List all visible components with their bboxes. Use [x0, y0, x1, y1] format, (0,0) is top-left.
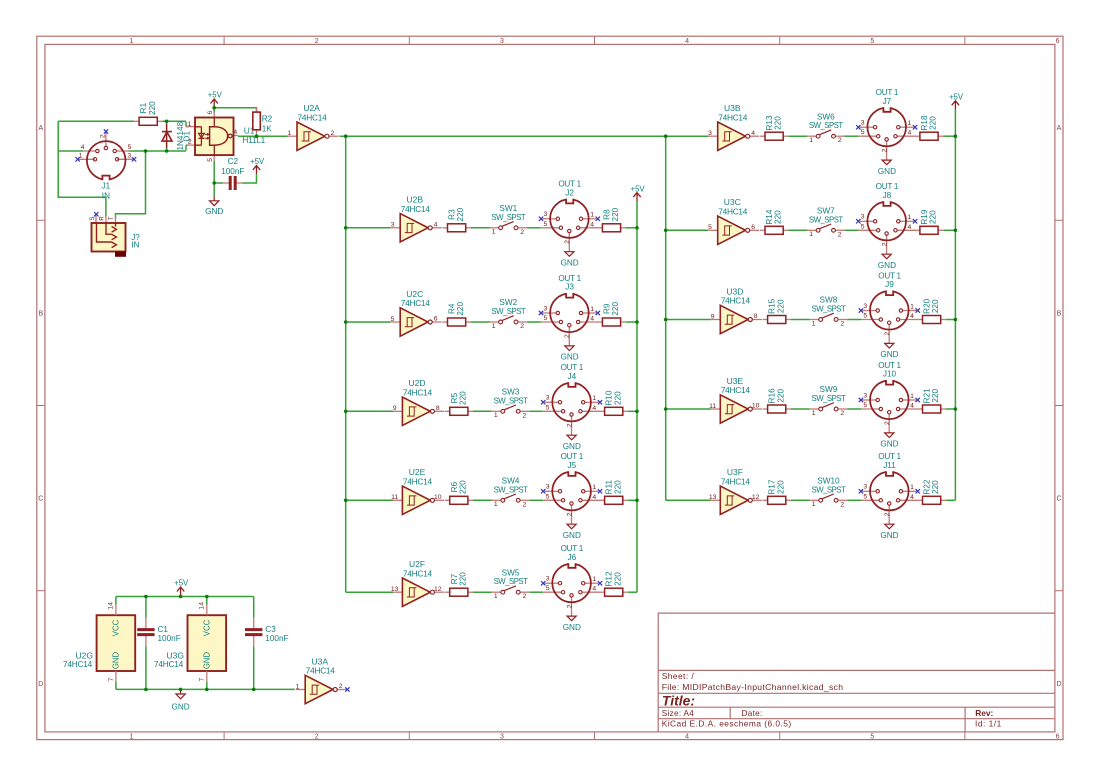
svg-text:74HC14: 74HC14 [154, 659, 184, 669]
svg-text:IN: IN [131, 241, 139, 250]
svg-text:GND: GND [202, 651, 211, 669]
svg-text:+5V: +5V [174, 579, 189, 588]
svg-text:4: 4 [592, 405, 596, 412]
svg-text:OUT 1: OUT 1 [561, 544, 584, 553]
svg-text:1: 1 [79, 153, 83, 160]
svg-text:11: 11 [709, 403, 716, 410]
svg-text:J9: J9 [885, 280, 894, 289]
svg-text:SW3: SW3 [502, 387, 520, 396]
svg-text:+5V: +5V [250, 157, 265, 166]
svg-text:12: 12 [752, 494, 760, 501]
svg-text:2: 2 [884, 512, 891, 516]
svg-text:4: 4 [590, 315, 594, 322]
svg-text:220: 220 [148, 101, 157, 115]
svg-text:4: 4 [81, 144, 85, 151]
svg-text:2: 2 [881, 242, 888, 246]
svg-text:J8: J8 [883, 191, 892, 200]
svg-text:2: 2 [881, 148, 888, 152]
svg-text:4: 4 [590, 221, 594, 228]
svg-text:5: 5 [863, 493, 867, 500]
svg-text:3: 3 [861, 120, 865, 127]
svg-text:5: 5 [708, 224, 712, 231]
svg-text:1: 1 [492, 229, 496, 236]
svg-text:2: 2 [840, 501, 844, 508]
svg-text:SW_SPST: SW_SPST [812, 394, 846, 403]
svg-text:1: 1 [130, 38, 134, 45]
svg-text:2: 2 [564, 240, 571, 244]
svg-text:220: 220 [776, 389, 785, 403]
svg-text:4: 4 [910, 313, 914, 320]
svg-text:GND: GND [560, 258, 578, 267]
svg-text:SW_SPST: SW_SPST [491, 213, 525, 222]
svg-text:6: 6 [751, 224, 755, 231]
svg-text:GND: GND [563, 623, 581, 632]
svg-text:2: 2 [564, 334, 571, 338]
svg-text:5: 5 [546, 585, 550, 592]
svg-text:2: 2 [520, 323, 524, 330]
svg-text:3: 3 [863, 484, 867, 491]
svg-text:SW10: SW10 [817, 476, 840, 485]
svg-text:6: 6 [1056, 733, 1060, 740]
svg-text:74HC14: 74HC14 [721, 296, 751, 306]
svg-text:OUT 1: OUT 1 [878, 361, 901, 370]
svg-text:2: 2 [566, 423, 573, 427]
svg-text:5: 5 [861, 223, 865, 230]
svg-text:B: B [38, 310, 43, 317]
svg-text:5: 5 [544, 315, 548, 322]
svg-text:4: 4 [751, 130, 755, 137]
svg-text:SW_SPST: SW_SPST [491, 307, 525, 316]
svg-text:1: 1 [812, 501, 816, 508]
svg-text:5: 5 [870, 38, 874, 45]
svg-text:GND: GND [880, 440, 898, 449]
svg-text:5: 5 [546, 493, 550, 500]
svg-text:10: 10 [434, 494, 442, 501]
svg-text:4: 4 [233, 129, 237, 136]
svg-text:File: MIDIPatchBay-InputChanne: File: MIDIPatchBay-InputChannel.kicad_sc… [662, 682, 844, 692]
svg-text:C1: C1 [158, 625, 169, 634]
svg-text:+5V: +5V [208, 91, 223, 100]
svg-text:220: 220 [776, 480, 785, 494]
svg-text:Rev:: Rev: [975, 708, 993, 718]
svg-text:2: 2 [99, 134, 106, 138]
svg-text:OUT 1: OUT 1 [876, 88, 899, 97]
svg-text:8: 8 [436, 405, 440, 412]
svg-text:3: 3 [500, 733, 504, 740]
svg-text:GND: GND [205, 207, 223, 216]
svg-text:J11: J11 [883, 461, 896, 470]
svg-text:OUT 1: OUT 1 [876, 182, 899, 191]
svg-text:D: D [38, 681, 43, 688]
svg-text:74HC14: 74HC14 [306, 666, 336, 676]
svg-text:B: B [1057, 310, 1062, 317]
svg-text:SW7: SW7 [817, 206, 835, 215]
svg-text:2: 2 [520, 229, 524, 236]
svg-text:C: C [1056, 496, 1061, 503]
svg-text:1: 1 [592, 395, 596, 402]
svg-text:4: 4 [592, 494, 596, 501]
svg-text:1: 1 [130, 733, 134, 740]
svg-text:1: 1 [809, 137, 813, 144]
svg-text:SW8: SW8 [820, 296, 838, 305]
svg-text:2: 2 [840, 320, 844, 327]
svg-text:D: D [1056, 681, 1061, 688]
svg-text:220: 220 [611, 207, 620, 221]
svg-text:J3: J3 [565, 283, 574, 292]
svg-text:9: 9 [393, 405, 397, 412]
svg-text:4: 4 [685, 733, 689, 740]
svg-text:100nF: 100nF [265, 634, 288, 643]
svg-text:5: 5 [863, 402, 867, 409]
svg-text:13: 13 [709, 494, 717, 501]
svg-text:1: 1 [492, 323, 496, 330]
svg-text:220: 220 [931, 389, 940, 403]
svg-text:74HC14: 74HC14 [401, 204, 431, 214]
svg-text:3: 3 [500, 38, 504, 45]
svg-text:14: 14 [198, 602, 205, 610]
svg-text:SW_SPST: SW_SPST [494, 396, 528, 405]
svg-text:220: 220 [458, 480, 467, 494]
svg-text:J1: J1 [102, 181, 111, 190]
svg-text:J7: J7 [883, 97, 892, 106]
svg-text:SW_SPST: SW_SPST [812, 305, 846, 314]
svg-text:5: 5 [861, 129, 865, 136]
svg-text:2: 2 [523, 501, 527, 508]
svg-text:3: 3 [708, 130, 712, 137]
svg-text:J10: J10 [883, 370, 897, 379]
svg-text:OUT 1: OUT 1 [878, 271, 901, 280]
svg-text:220: 220 [458, 391, 467, 405]
svg-text:GND: GND [111, 651, 120, 669]
svg-text:1: 1 [908, 214, 912, 221]
svg-text:3: 3 [546, 395, 550, 402]
svg-text:Id: 1/1: Id: 1/1 [975, 718, 1002, 728]
svg-text:J6: J6 [567, 553, 576, 562]
svg-text:6: 6 [434, 316, 438, 323]
svg-text:14: 14 [108, 602, 115, 610]
svg-text:2: 2 [523, 593, 527, 600]
svg-text:2: 2 [840, 410, 844, 417]
svg-text:10: 10 [752, 403, 760, 410]
svg-text:4: 4 [434, 221, 438, 228]
svg-text:1: 1 [910, 393, 914, 400]
svg-text:220: 220 [774, 210, 783, 224]
svg-text:Date:: Date: [742, 709, 763, 718]
svg-text:2: 2 [884, 421, 891, 425]
svg-text:74HC14: 74HC14 [298, 112, 328, 122]
svg-text:1: 1 [812, 320, 816, 327]
svg-text:GND: GND [563, 442, 581, 451]
svg-text:3: 3 [546, 576, 550, 583]
svg-text:SW5: SW5 [502, 568, 520, 577]
svg-text:5: 5 [870, 733, 874, 740]
svg-text:3: 3 [546, 484, 550, 491]
svg-text:74HC14: 74HC14 [403, 568, 433, 578]
svg-text:74HC14: 74HC14 [63, 659, 93, 669]
svg-text:220: 220 [611, 302, 620, 316]
svg-text:220: 220 [458, 572, 467, 586]
svg-text:5: 5 [128, 144, 132, 151]
svg-text:1: 1 [494, 501, 498, 508]
svg-text:2: 2 [566, 604, 573, 608]
svg-text:2: 2 [315, 38, 319, 45]
svg-text:GND: GND [878, 167, 896, 176]
svg-text:2: 2 [188, 139, 192, 146]
svg-text:1: 1 [296, 683, 300, 690]
svg-text:5: 5 [863, 312, 867, 319]
svg-text:C: C [38, 496, 43, 503]
svg-text:12: 12 [434, 586, 442, 593]
svg-text:220: 220 [613, 480, 622, 494]
svg-text:220: 220 [776, 299, 785, 313]
svg-text:74HC14: 74HC14 [718, 207, 748, 217]
svg-text:J5: J5 [567, 461, 576, 470]
svg-text:3: 3 [544, 305, 548, 312]
svg-text:OUT 1: OUT 1 [558, 180, 581, 189]
svg-text:3: 3 [544, 211, 548, 218]
svg-text:C3: C3 [265, 625, 276, 634]
svg-text:1: 1 [592, 576, 596, 583]
svg-text:11: 11 [391, 494, 398, 501]
svg-text:SW6: SW6 [817, 112, 835, 121]
svg-text:KiCad E.D.A. eeschema (6.0.5): KiCad E.D.A. eeschema (6.0.5) [662, 718, 792, 728]
svg-text:2: 2 [566, 512, 573, 516]
svg-text:2: 2 [838, 231, 842, 238]
svg-text:1: 1 [809, 231, 813, 238]
svg-text:2: 2 [884, 331, 891, 335]
svg-text:GND: GND [563, 531, 581, 540]
svg-text:220: 220 [929, 210, 938, 224]
svg-text:3: 3 [391, 222, 395, 229]
svg-text:100nF: 100nF [221, 167, 244, 176]
svg-text:1: 1 [910, 303, 914, 310]
svg-text:C2: C2 [228, 157, 239, 166]
svg-text:74HC14: 74HC14 [403, 388, 433, 398]
svg-text:H11L1: H11L1 [242, 135, 265, 145]
svg-text:3: 3 [127, 153, 131, 160]
svg-text:SW_SPST: SW_SPST [494, 577, 528, 586]
svg-text:GND: GND [880, 531, 898, 540]
svg-text:74HC14: 74HC14 [718, 112, 748, 122]
svg-text:GND: GND [560, 353, 578, 362]
svg-text:J2: J2 [565, 188, 574, 197]
svg-text:2: 2 [523, 412, 527, 419]
svg-text:74HC14: 74HC14 [401, 298, 431, 308]
svg-text:7: 7 [199, 677, 206, 681]
svg-text:2: 2 [838, 137, 842, 144]
svg-text:220: 220 [929, 116, 938, 130]
svg-text:7: 7 [108, 677, 115, 681]
svg-text:1: 1 [910, 484, 914, 491]
svg-text:SW_SPST: SW_SPST [812, 485, 846, 494]
svg-text:OUT 1: OUT 1 [878, 452, 901, 461]
svg-text:2: 2 [315, 733, 319, 740]
svg-text:GND: GND [171, 702, 189, 711]
svg-text:74HC14: 74HC14 [403, 477, 433, 487]
svg-text:3: 3 [863, 303, 867, 310]
svg-text:4: 4 [910, 402, 914, 409]
svg-text:220: 220 [456, 207, 465, 221]
svg-text:SW_SPST: SW_SPST [809, 215, 843, 224]
svg-text:3: 3 [863, 392, 867, 399]
svg-text:6: 6 [1056, 38, 1060, 45]
svg-text:1: 1 [908, 120, 912, 127]
svg-text:4: 4 [908, 130, 912, 137]
svg-text:1: 1 [592, 484, 596, 491]
svg-text:74HC14: 74HC14 [721, 477, 751, 487]
svg-text:4: 4 [908, 224, 912, 231]
svg-text:5: 5 [391, 316, 395, 323]
svg-text:SW_SPST: SW_SPST [494, 485, 528, 494]
svg-text:IN: IN [102, 191, 110, 200]
svg-text:+5V: +5V [631, 184, 646, 193]
svg-text:GND: GND [878, 261, 896, 270]
svg-text:1K: 1K [262, 124, 273, 133]
svg-text:Sheet: /: Sheet: / [662, 671, 695, 681]
svg-text:GND: GND [880, 350, 898, 359]
svg-text:S: S [89, 216, 96, 220]
svg-text:SW9: SW9 [820, 385, 838, 394]
svg-text:5: 5 [546, 404, 550, 411]
svg-text:4: 4 [592, 586, 596, 593]
svg-text:220: 220 [931, 299, 940, 313]
svg-text:OUT 1: OUT 1 [561, 452, 584, 461]
svg-text:5: 5 [207, 158, 214, 162]
svg-text:220: 220 [456, 302, 465, 316]
svg-text:SW2: SW2 [499, 298, 517, 307]
svg-text:2: 2 [339, 683, 343, 690]
svg-text:9: 9 [711, 313, 715, 320]
svg-text:VCC: VCC [111, 619, 120, 636]
svg-text:13: 13 [391, 586, 399, 593]
svg-text:A: A [38, 125, 43, 132]
svg-text:220: 220 [613, 391, 622, 405]
svg-text:2: 2 [331, 130, 335, 137]
svg-text:VCC: VCC [202, 619, 211, 636]
svg-text:1: 1 [494, 412, 498, 419]
svg-text:OUT 1: OUT 1 [558, 274, 581, 283]
svg-text:100nF: 100nF [158, 634, 181, 643]
svg-text:1: 1 [812, 410, 816, 417]
svg-text:220: 220 [774, 116, 783, 130]
svg-text:1: 1 [188, 121, 192, 128]
svg-text:220: 220 [613, 572, 622, 586]
svg-text:J4: J4 [567, 372, 576, 381]
svg-text:4: 4 [910, 494, 914, 501]
svg-text:74HC14: 74HC14 [721, 385, 751, 395]
svg-text:SW4: SW4 [502, 476, 520, 485]
svg-text:OUT 1: OUT 1 [561, 363, 584, 372]
svg-text:R2: R2 [262, 114, 273, 123]
svg-text:SW1: SW1 [499, 204, 517, 213]
svg-text:220: 220 [931, 480, 940, 494]
svg-text:3: 3 [861, 214, 865, 221]
svg-text:R: R [98, 216, 105, 221]
svg-text:5: 5 [544, 221, 548, 228]
svg-text:8: 8 [754, 313, 758, 320]
svg-text:SW_SPST: SW_SPST [809, 121, 843, 130]
svg-text:1: 1 [590, 306, 594, 313]
svg-text:T: T [108, 216, 115, 220]
svg-text:+5V: +5V [949, 93, 964, 102]
svg-text:1: 1 [590, 212, 594, 219]
svg-text:1: 1 [287, 130, 291, 137]
svg-text:6: 6 [207, 110, 214, 114]
svg-text:1: 1 [494, 593, 498, 600]
svg-text:4: 4 [685, 38, 689, 45]
svg-text:Size: A4: Size: A4 [662, 709, 695, 718]
svg-text:Title:: Title: [662, 692, 695, 708]
svg-text:A: A [1057, 125, 1062, 132]
